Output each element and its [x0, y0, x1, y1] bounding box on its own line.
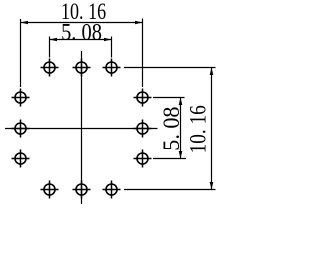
- svg-text:5. 08: 5. 08: [159, 107, 185, 151]
- svg-text:10. 16: 10. 16: [185, 105, 211, 153]
- svg-text:5. 08: 5. 08: [61, 19, 102, 46]
